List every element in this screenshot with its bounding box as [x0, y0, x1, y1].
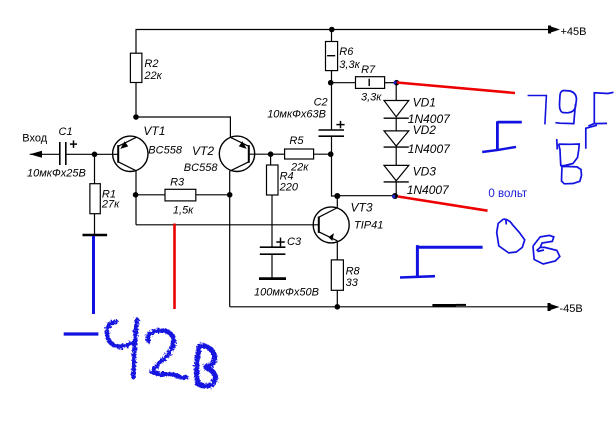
diode VD3	[384, 165, 409, 180]
svg-text:VD2: VD2	[413, 123, 437, 137]
resistor R7	[356, 77, 385, 89]
svg-text:-45В: -45В	[560, 303, 583, 315]
wire C2 top lead	[331, 83, 333, 130]
wire thick overlay on rail	[432, 304, 456, 307]
svg-text:0 вольт: 0 вольт	[488, 188, 528, 200]
node R4 top junction	[268, 151, 274, 157]
svg-text:1,5к: 1,5к	[173, 204, 194, 216]
wire VT2 base to R4 node	[249, 153, 271, 155]
wire VD1 to VD2	[395, 118, 397, 131]
annotation blue doodle seven	[528, 96, 547, 125]
wire down to VT3 collector node	[332, 154, 338, 196]
svg-text:+45В: +45В	[561, 26, 587, 38]
node A input node	[92, 152, 98, 158]
wire bottom rail -45V	[230, 306, 549, 308]
resistor R3	[165, 189, 196, 201]
svg-text:100мкФх50В: 100мкФх50В	[254, 286, 319, 298]
annotation blue handwriting v	[197, 346, 216, 386]
wire R8 bottom lead	[336, 290, 338, 307]
annotation blue mark near diodes	[482, 121, 522, 152]
node R3 left junction	[133, 192, 139, 198]
svg-text:1N4007: 1N4007	[407, 183, 450, 197]
svg-text:3,3к: 3,3к	[361, 91, 382, 103]
wire R1 bottom lead	[94, 214, 96, 235]
resistor R8	[331, 260, 343, 290]
annotation red vertical line	[173, 224, 176, 310]
wire node A to VT1 base	[95, 153, 119, 155]
node VD3 bottom junction	[392, 193, 398, 199]
svg-text:27к: 27к	[101, 198, 120, 210]
wire VT3 collector node to VD3 node	[337, 195, 395, 197]
node VT3 collector junction	[334, 193, 340, 199]
svg-text:22к: 22к	[143, 70, 162, 82]
wire C1 to node A	[66, 153, 95, 155]
svg-text:R3: R3	[170, 177, 185, 189]
svg-text:220: 220	[279, 182, 299, 194]
wire node to R5	[271, 153, 285, 155]
capacitor C3	[260, 246, 286, 248]
wire R7 right lead	[385, 82, 397, 84]
resistor R5	[285, 149, 314, 159]
annotation blue doodle blob2	[533, 235, 560, 264]
wire R6 bottom lead	[331, 71, 333, 83]
wire VT2 collector lead to bottom rail	[229, 171, 231, 307]
wire R6 top lead	[331, 30, 333, 42]
wire R2 bottom lead	[135, 83, 137, 118]
wire R3 right lead	[196, 194, 230, 196]
wire emitter rail to VT2	[136, 117, 230, 137]
diode VD1	[384, 101, 409, 117]
svg-text:BC558: BC558	[184, 162, 219, 174]
node R6 R7 C2 junction	[328, 80, 334, 86]
svg-text:R4: R4	[280, 171, 294, 183]
resistor R1	[90, 184, 100, 214]
annotation blue flag near R8	[400, 245, 483, 277]
annotation blue vertical line below R1	[92, 236, 95, 314]
svg-text:10мкФх25В: 10мкФх25В	[27, 168, 86, 180]
ground bar under R1	[83, 234, 108, 237]
svg-text:1N4007: 1N4007	[408, 142, 451, 156]
wire VT1 collector to VT3 base	[136, 224, 319, 226]
annotation red line from VD3 node	[398, 197, 488, 211]
resistor R6	[326, 42, 338, 71]
svg-text:BC558: BC558	[148, 145, 183, 157]
wire R1 top lead	[94, 154, 96, 183]
transistor VT1	[113, 124, 183, 172]
capacitor C2	[319, 129, 345, 131]
svg-text:C3: C3	[287, 236, 302, 248]
transistor VT3	[313, 201, 383, 243]
wire VD2 to VD3	[395, 147, 397, 165]
node VT1 emitter junction	[133, 114, 139, 120]
wire top rail +45V	[136, 29, 550, 31]
annotation blue doodle blob1	[497, 219, 525, 253]
svg-text:VT3: VT3	[351, 201, 373, 215]
svg-text:R7: R7	[361, 64, 376, 76]
svg-text:VD3: VD3	[413, 164, 437, 178]
svg-text:R5: R5	[289, 135, 304, 147]
annotation blue doodle letter B	[557, 139, 582, 184]
wire R5 right lead	[314, 153, 331, 155]
svg-text:TIP41: TIP41	[354, 219, 383, 231]
svg-text:R8: R8	[346, 266, 361, 278]
resistor R4	[267, 165, 279, 195]
svg-text:R2: R2	[144, 58, 158, 70]
diode VD2	[384, 131, 409, 146]
wire R2 top lead	[135, 30, 137, 54]
svg-text:VD1: VD1	[413, 95, 436, 109]
wire R3 left lead	[136, 194, 165, 196]
wire VD3 bottom lead	[395, 182, 397, 196]
node R8 bottom rail junction	[335, 304, 341, 310]
annotation blue handwriting 42	[107, 320, 186, 378]
arrow +45V	[549, 26, 561, 33]
wire VT1 collector lead down	[135, 171, 137, 225]
wire VT3 collector lead	[336, 196, 338, 208]
node R3 right junction	[227, 192, 233, 198]
svg-text:C1: C1	[59, 126, 73, 138]
wire input with arrow	[30, 153, 60, 155]
wire VD chain top lead	[395, 83, 397, 101]
annotation blue doodle tick	[586, 125, 597, 149]
capacitor C1	[59, 142, 61, 165]
wire R4 top lead	[270, 154, 272, 165]
svg-text:R6: R6	[339, 46, 354, 58]
svg-text:Вход: Вход	[22, 133, 47, 145]
svg-text:VT1: VT1	[143, 124, 165, 138]
wire C2 bottom lead	[331, 136, 333, 154]
annotation blue doodle nine	[555, 91, 576, 124]
node R7 VD1 junction	[394, 80, 400, 86]
annotation blue doodle bracket	[588, 92, 613, 126]
wire node to R7	[331, 82, 356, 84]
annotation red line from R7 node	[397, 83, 515, 94]
wire VT3 emitter lead	[336, 241, 338, 260]
wire R4 bottom lead to C3	[271, 195, 273, 247]
resistor R2	[130, 53, 142, 82]
node top rail R6 junction	[329, 27, 335, 33]
arrow -45V	[548, 303, 560, 310]
svg-text:33: 33	[346, 277, 359, 289]
transistor VT2	[184, 136, 255, 174]
annotation blue dash bottom left	[64, 332, 99, 335]
node R5 C2 junction	[328, 151, 334, 157]
svg-text:3,3к: 3,3к	[339, 59, 360, 71]
svg-text:C2: C2	[314, 97, 328, 109]
svg-text:10мкФх63В: 10мкФх63В	[267, 109, 326, 121]
svg-text:VT2: VT2	[192, 144, 214, 158]
